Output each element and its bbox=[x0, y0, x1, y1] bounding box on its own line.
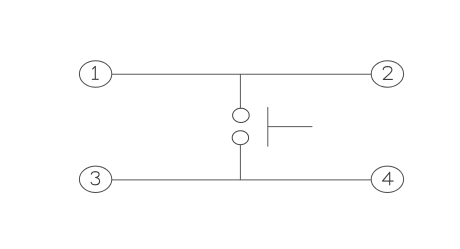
pin pad 1 bbox=[79, 61, 111, 87]
actuator vertical bar bbox=[267, 107, 269, 146]
wire bottom horizontal (pin3 to pin4) bbox=[112, 179, 371, 181]
pin pad 4 bbox=[371, 166, 403, 192]
wire vertical from lower contact to bottom rail bbox=[239, 145, 241, 180]
pin pad 2 bbox=[371, 61, 403, 87]
pin number 3 bbox=[91, 172, 100, 185]
pin number 2 bbox=[383, 67, 392, 80]
pin pad 3 bbox=[79, 166, 111, 192]
pin number 1 bbox=[92, 66, 98, 79]
wire vertical from top rail to upper contact bbox=[239, 74, 241, 108]
switch contact lower bbox=[232, 131, 248, 145]
pin number 4 bbox=[383, 172, 394, 185]
switch contact upper bbox=[233, 108, 250, 122]
wire top horizontal (pin1 to pin2) bbox=[112, 73, 371, 75]
actuator horizontal stem bbox=[268, 126, 312, 128]
